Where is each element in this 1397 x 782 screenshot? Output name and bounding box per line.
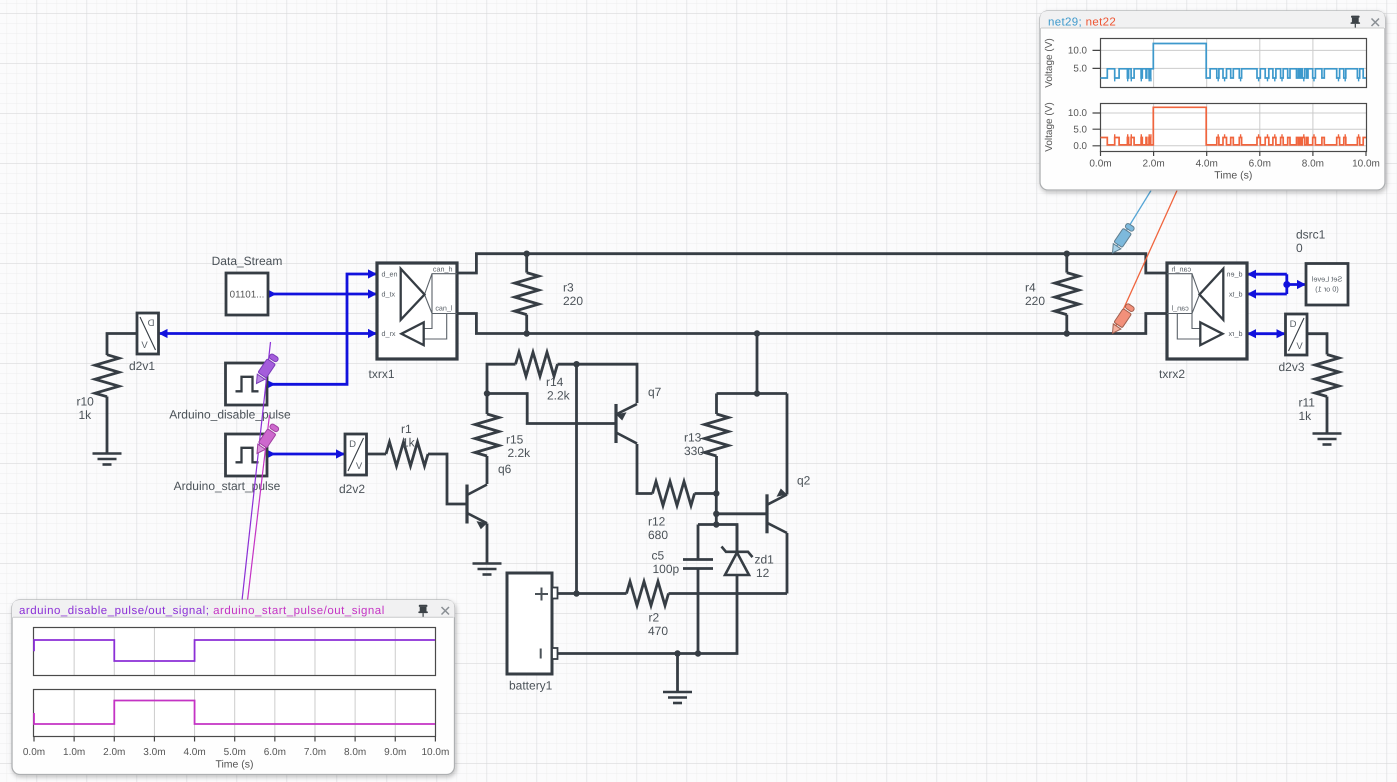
wire txrx2 xn_b to d2v3 <box>1247 332 1286 335</box>
wire q2 emitter up <box>786 394 789 495</box>
svg-text:0.0: 0.0 <box>1073 141 1087 152</box>
converter d2v1 <box>137 313 159 354</box>
svg-text:net29; net22: net29; net22 <box>1048 17 1116 29</box>
junction branch mid <box>754 390 760 396</box>
panel close icon <box>1372 19 1380 27</box>
svg-text:Arduino_start_pulse: Arduino_start_pulse <box>174 479 281 493</box>
svg-text:1.0m: 1.0m <box>63 747 85 758</box>
wire n2 to battery positive node <box>575 364 578 593</box>
svg-text:6.0m: 6.0m <box>1249 159 1271 170</box>
svg-text:r10: r10 <box>77 395 95 409</box>
wire d2v1 output to r10 <box>107 334 137 356</box>
resistor r13 <box>705 414 729 456</box>
svg-text:r11: r11 <box>1299 396 1316 410</box>
svg-text:can_h: can_h <box>433 265 453 274</box>
svg-text:Set Level: Set Level <box>1311 275 1342 284</box>
probe start_pulse (magenta pen) <box>253 423 280 456</box>
wire can_h bus <box>457 254 1167 273</box>
wire disable_pulse to d_en <box>267 274 377 384</box>
svg-text:r15: r15 <box>506 433 524 447</box>
svg-text:10.0: 10.0 <box>1068 46 1088 57</box>
svg-text:3.0m: 3.0m <box>143 747 165 758</box>
svg-text:q6: q6 <box>498 462 512 476</box>
panel2 pin icon <box>418 605 428 617</box>
svg-text:d_en: d_en <box>1227 270 1243 279</box>
plot axes net29 <box>1101 39 1367 88</box>
wire branch horizontal <box>717 392 788 395</box>
converter d2v3 <box>1286 314 1308 355</box>
ground r11 <box>1313 434 1342 445</box>
wire start_pulse to d2v2 <box>267 453 345 456</box>
wire dsrc1 to txrx2 pins <box>1247 274 1306 294</box>
svg-text:5.0: 5.0 <box>1073 64 1087 75</box>
battery battery1 <box>507 573 552 674</box>
panel2 close icon <box>442 607 450 615</box>
transceiver txrx1 <box>377 263 457 359</box>
source dsrc1 <box>1306 264 1348 306</box>
svg-text:1k: 1k <box>1299 409 1313 423</box>
transistor q7 <box>616 404 637 444</box>
svg-text:100p: 100p <box>653 562 680 576</box>
wire q7 collector to r12 <box>637 444 653 494</box>
wire r1 to q6 base <box>428 454 467 504</box>
resistor r14 <box>516 352 558 376</box>
svg-text:V: V <box>1296 341 1303 352</box>
svg-text:01101...: 01101... <box>230 290 265 301</box>
panel2 x ticks <box>34 737 435 742</box>
wire q2 collector down <box>786 533 789 594</box>
transistor q2 <box>767 489 787 534</box>
svg-text:can_h: can_h <box>1172 265 1192 274</box>
transceiver txrx2 (mirrored) <box>1167 263 1247 359</box>
wire c5-zd1 top link <box>698 525 737 552</box>
svg-text:q7: q7 <box>648 385 662 399</box>
svg-text:5.0m: 5.0m <box>224 747 246 758</box>
junction r12/r13 <box>713 490 719 496</box>
svg-text:2.2k: 2.2k <box>508 446 532 460</box>
svg-text:1k: 1k <box>402 436 416 450</box>
zener diode zd1 <box>722 547 753 576</box>
svg-text:d_tx: d_tx <box>1229 290 1243 299</box>
svg-text:680: 680 <box>648 528 668 542</box>
svg-text:r4: r4 <box>1025 281 1036 295</box>
capacitor c5 <box>683 560 713 569</box>
svg-text:8.0m: 8.0m <box>1302 159 1324 170</box>
svg-text:12: 12 <box>756 566 770 580</box>
probe net22 (red pen) <box>1108 303 1135 336</box>
waveform trace start_pulse (magenta) <box>34 701 435 725</box>
junction branch can_l <box>754 330 760 336</box>
wire r12 to node <box>695 492 717 495</box>
resistor r15 <box>475 414 499 456</box>
wire data_stream to d_tx <box>268 293 377 296</box>
junction c5/zd1 <box>713 521 719 527</box>
wire can_l bus <box>457 314 1167 334</box>
wire n1 to r14 left <box>487 364 516 393</box>
callout line net29 probe <box>1113 191 1152 254</box>
junction n2 r14/q7 <box>573 361 579 367</box>
source Data_Stream <box>226 273 268 315</box>
svg-text:0.0m: 0.0m <box>1089 159 1111 170</box>
junction n1 r14/r15 <box>484 390 490 396</box>
wire d2v3 output to r11 <box>1308 334 1328 355</box>
wire battery plus to r2 <box>557 592 627 595</box>
svg-text:9.0m: 9.0m <box>384 747 406 758</box>
svg-text:10.0m: 10.0m <box>422 747 450 758</box>
wire r15 to n1 <box>486 394 489 415</box>
svg-text:txrx1: txrx1 <box>368 367 394 381</box>
svg-text:220: 220 <box>1025 294 1045 308</box>
svg-text:Voltage (V): Voltage (V) <box>1044 102 1055 151</box>
svg-text:Voltage (V): Voltage (V) <box>1044 38 1055 87</box>
svg-text:d2v1: d2v1 <box>129 359 155 373</box>
wire r11 to ground <box>1326 397 1329 434</box>
source Arduino_disable_pulse <box>226 363 268 405</box>
svg-text:arduino_disable_pulse/out_sign: arduino_disable_pulse/out_signal; arduin… <box>19 605 385 617</box>
svg-text:4.0m: 4.0m <box>1196 159 1218 170</box>
plot axes net22 <box>1101 104 1367 152</box>
svg-text:r3: r3 <box>563 281 574 295</box>
junction r4 can_l <box>1064 330 1070 336</box>
resistor r4 <box>1055 273 1079 315</box>
plot panel net29/net22 <box>1040 11 1385 190</box>
svg-text:2.0m: 2.0m <box>103 747 125 758</box>
svg-text:V: V <box>141 340 148 351</box>
junction r3 can_h <box>524 251 530 257</box>
wire r15 to q6 collector <box>486 456 489 484</box>
svg-text:7.0m: 7.0m <box>304 747 326 758</box>
svg-text:d2v2: d2v2 <box>339 482 365 496</box>
svg-text:1k: 1k <box>79 408 93 422</box>
wire r3 top lead <box>525 254 528 273</box>
wire r14 right to n2 to q7 emitter <box>558 364 638 403</box>
svg-text:10.0m: 10.0m <box>1352 159 1380 170</box>
wire r10 to ground <box>106 397 109 454</box>
wire r3 bottom lead <box>525 315 528 334</box>
panel pin icon <box>1351 16 1361 28</box>
junction q2 base <box>713 511 719 517</box>
wire q2 base <box>716 512 767 515</box>
resistor r11 <box>1315 355 1339 397</box>
svg-text:220: 220 <box>563 294 583 308</box>
probe disable_pulse (violet pen) <box>252 353 279 386</box>
svg-text:c5: c5 <box>652 549 665 563</box>
svg-text:(0 or 1): (0 or 1) <box>1315 285 1339 294</box>
svg-text:d_rx: d_rx <box>1228 329 1242 338</box>
wire battery minus rail <box>557 575 737 654</box>
callout line start_pulse probe <box>248 415 270 601</box>
svg-text:D: D <box>147 318 154 329</box>
ground q6 emitter <box>473 564 502 575</box>
wire c5 top lead <box>697 525 700 559</box>
wire d2v2 to r1 <box>367 453 386 456</box>
svg-text:d_tx: d_tx <box>382 290 396 299</box>
svg-text:txrx2: txrx2 <box>1159 367 1185 381</box>
waveform trace net29 (blue) <box>1101 44 1367 79</box>
svg-text:6.0m: 6.0m <box>264 747 286 758</box>
waveform trace disable_pulse (violet) <box>34 640 435 661</box>
resistor r1 <box>386 442 428 466</box>
plot axes start_pulse <box>34 690 436 737</box>
svg-text:battery1: battery1 <box>509 679 553 693</box>
svg-text:8.0m: 8.0m <box>344 747 366 758</box>
junction r3 can_l <box>524 330 530 336</box>
svg-text:d_rx: d_rx <box>382 329 396 338</box>
svg-text:Time (s): Time (s) <box>215 759 253 771</box>
junction r4 can_h <box>1064 251 1070 257</box>
wire r13 bottom lead <box>715 456 718 494</box>
junction rail c5 <box>695 650 701 656</box>
converter d2v2 <box>345 434 367 475</box>
svg-text:Arduino_disable_pulse: Arduino_disable_pulse <box>169 408 291 422</box>
wire rail to ground <box>676 654 679 693</box>
x tick labels Time <box>1101 151 1367 156</box>
resistor r12 <box>653 482 695 506</box>
wire q7 base net <box>487 394 616 424</box>
junction rail ground <box>674 650 680 656</box>
svg-text:d2v3: d2v3 <box>1279 360 1305 374</box>
ground r10 <box>93 454 122 465</box>
svg-text:can_l: can_l <box>435 304 453 313</box>
svg-text:330: 330 <box>684 444 704 458</box>
svg-text:D: D <box>1290 319 1297 330</box>
svg-text:r13: r13 <box>684 431 702 445</box>
svg-text:Time (s): Time (s) <box>1214 170 1252 182</box>
svg-text:0.0m: 0.0m <box>23 747 45 758</box>
wire r4 bottom lead <box>1065 315 1068 334</box>
svg-text:2.0m: 2.0m <box>1142 159 1164 170</box>
svg-text:D: D <box>349 439 356 450</box>
callout line net22 probe <box>1113 191 1178 334</box>
probe net29 (blue pen) <box>1108 222 1135 255</box>
svg-text:dsrc1: dsrc1 <box>1296 228 1326 242</box>
wire q6 emitter to ground <box>486 524 489 564</box>
svg-text:V: V <box>356 461 363 472</box>
resistor r2 <box>627 582 669 606</box>
svg-text:r14: r14 <box>546 375 564 389</box>
svg-text:2.2k: 2.2k <box>547 389 571 403</box>
svg-text:q2: q2 <box>797 474 811 488</box>
wire zd1 top lead <box>736 525 739 553</box>
callout line disable_pulse probe <box>242 342 271 601</box>
svg-text:470: 470 <box>648 624 668 638</box>
resistor r10 <box>95 355 119 397</box>
svg-text:r12: r12 <box>648 515 666 529</box>
wire r13 top lead <box>715 394 718 415</box>
wire r2 to q2 collector <box>669 592 788 595</box>
wire can_l branch down <box>756 334 759 394</box>
source Arduino_start_pulse <box>226 434 268 476</box>
transistor q6 <box>467 485 487 530</box>
wire d_rx to d2v1 <box>159 332 378 335</box>
svg-text:0: 0 <box>1296 241 1303 255</box>
svg-text:10.0: 10.0 <box>1068 108 1088 119</box>
svg-text:r2: r2 <box>649 611 660 625</box>
svg-text:d_en: d_en <box>382 270 398 279</box>
svg-text:zd1: zd1 <box>755 553 775 567</box>
junction dsrc1 wire <box>1283 281 1290 288</box>
waveform trace net22 (red) <box>1101 107 1367 145</box>
junction battery plus <box>573 590 579 596</box>
resistor r3 <box>515 273 539 315</box>
svg-text:4.0m: 4.0m <box>183 747 205 758</box>
plot panel arduino pulses <box>12 600 455 775</box>
svg-text:r1: r1 <box>401 422 412 436</box>
wire c5 bottom lead <box>697 569 700 654</box>
svg-text:5.0: 5.0 <box>1073 124 1087 135</box>
svg-text:Data_Stream: Data_Stream <box>212 254 283 268</box>
wire r4 top lead <box>1065 254 1068 273</box>
plot axes disable_pulse <box>34 628 436 676</box>
wire node chain r12/q2/zd1 <box>715 494 718 525</box>
ground battery rail <box>663 692 692 703</box>
svg-text:can_l: can_l <box>1171 304 1189 313</box>
